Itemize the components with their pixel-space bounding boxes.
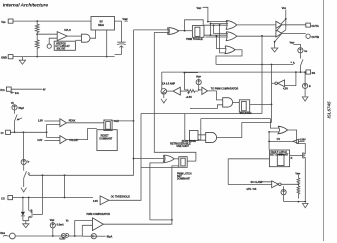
svg-text:2.8V: 2.8V <box>38 120 43 123</box>
wire PWM comp plus input <box>75 219 93 221</box>
op-amp PWM comparator <box>93 218 104 231</box>
node summing circle <box>161 89 167 95</box>
diode CS clamp <box>22 198 24 212</box>
current source minus input bias <box>91 234 96 239</box>
gate AND deadtime <box>206 132 217 142</box>
pin OUTA <box>306 23 319 28</box>
wire xor2 out <box>174 158 179 160</box>
op-amp osc comparator upper <box>60 119 67 127</box>
one-shot block <box>190 131 199 141</box>
gate AND enable <box>81 34 90 42</box>
wire OUTB line <box>237 35 276 37</box>
label +0.8V <box>188 92 190 94</box>
net VREF SS tick <box>290 42 301 48</box>
svg-text:80µA: 80µA <box>107 235 113 238</box>
svg-text:ISL6745: ISL6745 <box>327 101 332 119</box>
wire XOR out to toggle <box>177 30 192 32</box>
wire cross connects <box>208 21 228 23</box>
svg-text:CLK: CLK <box>114 120 119 123</box>
svg-text:(8V, 6V): (8V, 6V) <box>57 48 66 51</box>
gate AND ss-latch <box>223 98 233 107</box>
hysteresis spec box <box>54 41 75 50</box>
amplifier output buffer <box>202 87 208 94</box>
wire PWM out to XOR2 <box>150 163 172 220</box>
net VREF gate tick <box>197 7 208 22</box>
svg-text:Q: Q <box>28 172 30 175</box>
current source SS charge <box>298 48 303 53</box>
svg-text:PWM COMPARATOR: PWM COMPARATOR <box>87 213 111 216</box>
wire AND out to regulator <box>90 30 96 38</box>
gate OR fault <box>278 126 288 134</box>
net VREF pullup tick <box>50 219 55 222</box>
svg-text:DOMINANT: DOMINANT <box>99 137 112 140</box>
regulator block 5V REG <box>91 17 115 31</box>
ground symbol CS <box>23 224 29 228</box>
capacitor VREF bypass <box>117 42 126 44</box>
switch SS <box>300 53 303 72</box>
wire and2 inputs <box>198 135 206 140</box>
wire 2.8V into comparator <box>44 120 60 122</box>
wire bus A <box>216 63 295 65</box>
node Q control line <box>42 174 44 176</box>
wire to PWM comparator label <box>208 91 217 99</box>
op-amp UVLO comparator <box>57 32 67 41</box>
wire upper comp out to latch <box>67 122 104 124</box>
wire right mid vertical <box>242 65 272 123</box>
wire clamp comp output <box>272 82 275 84</box>
wire latch clock output <box>112 120 133 122</box>
svg-text:4.5V / SS: 4.5V / SS <box>246 188 257 191</box>
ground arrow SS <box>302 97 308 101</box>
wire or in1 drop <box>270 119 278 129</box>
flip-flop SS latch <box>239 100 249 112</box>
wire buffer to resistor <box>180 90 187 92</box>
wire PWM comp output <box>103 166 178 224</box>
svg-text:PWM TOGGLE: PWM TOGGLE <box>186 38 203 41</box>
current source VERR pullup <box>50 223 55 228</box>
wire gate3 output loop <box>216 50 242 65</box>
pin VDD <box>1 19 13 24</box>
wire tap to UVLO comparator <box>37 33 57 35</box>
wire discharge to ground arrow <box>23 178 25 187</box>
gate AND outa <box>226 20 237 29</box>
wire feedback to XOR top input2 <box>154 31 169 33</box>
wire outb feedback vertical <box>141 36 262 114</box>
transistor CS discharge FET <box>29 198 32 221</box>
node VDD-divider junction <box>36 20 38 22</box>
svg-text:4V: 4V <box>11 102 14 105</box>
resistor R-lower <box>35 34 39 48</box>
wire clamp comp input <box>285 72 296 86</box>
wire lower comp out to latch <box>67 129 97 140</box>
transistor driver B <box>276 30 282 37</box>
wire one-shot left input <box>185 114 190 141</box>
current source clamp bias <box>281 190 286 195</box>
svg-text:0.8V: 0.8V <box>37 139 42 142</box>
current source charge <box>11 102 24 110</box>
pin VERR <box>0 232 15 239</box>
oscillator block box <box>97 130 117 151</box>
wire switch to CT node <box>14 121 16 132</box>
wire CT node down to discharge source <box>22 132 24 159</box>
switch discharge <box>24 165 27 179</box>
current sink SS discharge <box>303 83 308 88</box>
wire and2 output <box>217 122 242 137</box>
flip-flop fault latch <box>270 150 290 167</box>
wire clamp bottom rail <box>284 201 306 203</box>
svg-text:4.5V: 4.5V <box>283 88 288 91</box>
label IRTD arrow <box>10 92 14 94</box>
svg-text:GND: GND <box>1 56 7 60</box>
wire FET source down <box>304 159 306 201</box>
svg-text:OUTA: OUTA <box>311 24 318 28</box>
svg-text:UVLO: UVLO <box>64 29 71 32</box>
resistor divider upper <box>297 178 300 184</box>
wire fault latch S input <box>228 159 269 185</box>
switch charge <box>15 110 18 121</box>
reference bubble <box>47 44 51 48</box>
svg-text:0.8mA: 0.8mA <box>57 224 64 227</box>
wire toggle Q fanout <box>204 24 228 26</box>
wire ss latch out <box>250 103 272 105</box>
ground arrow error amp <box>161 99 167 103</box>
wire buffer inputs <box>228 182 272 185</box>
svg-text:REG: REG <box>98 23 104 27</box>
svg-text:R: R <box>291 157 293 160</box>
wire PWM comp minus input <box>82 225 92 236</box>
ground symbol drivers <box>271 48 277 52</box>
wire Q stub <box>64 175 66 197</box>
svg-text:TO PWM COMPARATOR: TO PWM COMPARATOR <box>211 87 239 90</box>
pin SS <box>306 70 315 75</box>
wire VDD rail <box>13 20 91 22</box>
wire CLK vertical bus <box>29 30 134 175</box>
svg-text:OUTB: OUTB <box>311 35 319 39</box>
gate XOR clock <box>167 27 178 34</box>
resistor R-upper <box>35 21 39 33</box>
wire summing to ground <box>163 94 165 98</box>
page border right <box>323 0 325 241</box>
comparator OC threshold <box>100 196 109 205</box>
pin GND <box>1 55 13 60</box>
pin RTD <box>0 87 11 92</box>
diode clamp pair <box>62 234 66 238</box>
amplifier ss clamp buffer <box>272 181 279 188</box>
wire or output to FET <box>287 130 305 151</box>
svg-text:ONE SHOT: ONE SHOT <box>176 145 189 148</box>
wire toggle Qbar fanout <box>204 34 228 36</box>
svg-text:SS CLAMP: SS CLAMP <box>251 181 264 184</box>
wire regulator output to VREF node <box>115 21 122 42</box>
svg-text:0.55V: 0.55V <box>59 238 66 241</box>
wire reference to comparator minus input <box>49 38 57 44</box>
net VDD driver tick <box>282 6 287 30</box>
resistor divider lower <box>297 184 300 198</box>
gate XOR pwm <box>163 155 174 163</box>
wire VERR-sub top rail to SS bus <box>162 72 306 89</box>
pin CS <box>1 196 13 201</box>
svg-text:50µA: 50µA <box>18 107 24 110</box>
svg-text:5V: 5V <box>100 19 103 23</box>
wire VERR to comparator riser <box>69 235 83 237</box>
flip-flop PWM toggle <box>192 26 204 38</box>
wire clk to xor2 <box>134 158 164 160</box>
wire CT net <box>10 131 46 133</box>
wire OC comparator output <box>109 114 141 201</box>
wire latch to FET gate <box>290 154 303 156</box>
wire comparator output to AND gate <box>67 35 81 37</box>
net VREF <box>122 17 128 21</box>
wire gate3 inputs from outputs <box>216 25 226 53</box>
wire cap bottom to gnd rail <box>115 46 122 55</box>
wire or inputs <box>269 131 279 133</box>
svg-text:SET DOMINANT: SET DOMINANT <box>270 154 289 157</box>
ground arrow clamp <box>303 203 309 207</box>
svg-text:OC THRESHOLD: OC THRESHOLD <box>111 196 130 199</box>
transistor SS discharge FET <box>303 151 306 159</box>
ground arrow discharge <box>21 188 27 192</box>
node divider tap <box>36 33 38 35</box>
comparator 4.58V small <box>293 139 299 143</box>
wire and1 inputs <box>190 99 223 109</box>
wire buffer output to divider tap <box>281 183 298 185</box>
current source 0.8V offset <box>196 80 201 85</box>
pin OUTB <box>306 34 319 39</box>
wire CLK to XOR top <box>134 29 170 31</box>
wire clamp bottoms to ground <box>23 221 29 224</box>
svg-text:DOMINANT: DOMINANT <box>177 178 190 181</box>
wire toggle feedback vertical <box>154 32 196 161</box>
wire oc to latch lower <box>141 166 179 168</box>
wire pwm latch out <box>187 160 196 162</box>
wire toggle feedback loop <box>185 20 204 31</box>
svg-text:+0.8V: +0.8V <box>186 96 193 99</box>
svg-text:PEAK: PEAK <box>69 120 76 123</box>
wire regulator ground leg <box>106 30 108 57</box>
wire 0.8V into comparator <box>44 140 60 142</box>
wire Q to CS clamp gate <box>42 175 44 214</box>
wire pullup to VERR <box>52 228 54 236</box>
net VREF offset tick <box>196 76 201 79</box>
pin CT <box>1 130 11 135</box>
wire one-shot connect <box>198 119 200 140</box>
wire spec box to AND gate <box>75 39 81 41</box>
wire driver pulldown <box>275 33 282 47</box>
gate OR anti-overlap <box>225 46 235 54</box>
ground symbol main <box>19 57 25 65</box>
svg-text:SS LATCH: SS LATCH <box>240 112 252 115</box>
comparator SS clamp 4.5V <box>278 80 285 87</box>
wire summing to buffer <box>167 90 173 92</box>
amplifier inverting buffer <box>173 87 180 95</box>
flip-flop PWM latch <box>179 157 187 168</box>
gate AND outb <box>226 32 237 41</box>
current source CT discharge <box>21 159 26 164</box>
wire mid bus y118.6 <box>201 118 271 120</box>
svg-text:0.6V: 0.6V <box>93 200 98 203</box>
wire RTD net <box>11 88 42 90</box>
net VREF divider tick <box>295 172 300 178</box>
flip-flop oscillator latch <box>104 120 105 121</box>
svg-text:SS: SS <box>312 71 316 75</box>
resistor offset R <box>187 90 198 93</box>
op-amp osc comparator lower <box>60 136 67 144</box>
wire VERR net <box>15 235 62 237</box>
wire CS net <box>13 197 94 199</box>
svg-text:CS: CS <box>1 197 5 201</box>
wire and1 out <box>233 101 240 103</box>
wire CT to window comparators <box>47 125 60 138</box>
transistor driver A <box>276 21 282 28</box>
svg-text:Internal Architecture: Internal Architecture <box>3 3 49 9</box>
svg-text:EA 0.5 AMP: EA 0.5 AMP <box>162 83 176 86</box>
svg-text:OV: OV <box>277 138 281 141</box>
wire GND rail <box>13 56 115 58</box>
wire divider bottom to gnd rail <box>36 48 38 56</box>
wire feedback top <box>184 73 198 90</box>
svg-text:4V: 4V <box>43 88 46 91</box>
wire OUTA line <box>237 24 276 26</box>
